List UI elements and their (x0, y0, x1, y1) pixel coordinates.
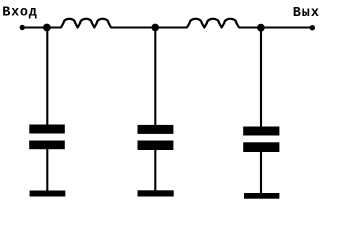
input terminal dot (20, 25, 25, 30)
wire junction1 to C1 (46, 28, 48, 125)
inductor L2 (187, 19, 239, 28)
node junction 2 (151, 24, 159, 32)
wire input to junction1 and to L1 (22, 27, 62, 29)
capacitor C2 (138, 125, 174, 150)
wire C2 to ground (154, 150, 156, 191)
wire junction3 to C3 (260, 28, 262, 127)
ground bar 2 (138, 190, 174, 196)
wire L1 to junction2 to L2 (111, 27, 188, 29)
output terminal dot (310, 25, 315, 30)
ground bar 3 (244, 193, 279, 199)
wire junction2 to C2 (154, 28, 156, 126)
inductor L1 (61, 19, 111, 28)
wire C3 to ground (260, 152, 262, 193)
ground bar 1 (30, 191, 66, 197)
node junction 3 (257, 24, 265, 32)
capacitor C1 (29, 125, 65, 150)
wire C1 to ground (46, 149, 48, 191)
node junction 1 (43, 24, 51, 32)
capacitor C3 (243, 127, 279, 153)
svg-text:Вых: Вых (293, 6, 320, 21)
svg-text:Вход: Вход (2, 5, 37, 20)
wire L2 to junction3 to output (239, 27, 313, 29)
